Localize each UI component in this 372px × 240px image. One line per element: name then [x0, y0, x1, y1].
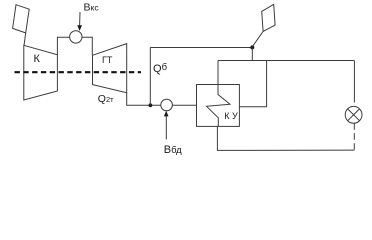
svg-text:ГТ: ГТ — [102, 55, 113, 65]
exhaust stack duct (right parallelogram) — [262, 4, 275, 31]
wire Qб header — [150, 47, 252, 49]
wire boiler right exit — [239, 61, 266, 107]
wire intake to compressor — [24, 33, 26, 46]
compressor K — [24, 45, 58, 100]
wire mixing chamber to boiler — [172, 104, 196, 106]
svg-text:К: К — [34, 53, 41, 65]
wire stack to junction — [253, 31, 264, 46]
shaft (dashed line) — [15, 71, 142, 73]
wire down into boiler top — [217, 61, 219, 85]
node junction at exhaust stack — [250, 45, 254, 49]
wire heat load return (dashed) — [353, 123, 355, 150]
wire bypass header — [218, 60, 354, 62]
wire bottom return line — [217, 126, 354, 150]
svg-text:К У: К У — [224, 111, 238, 121]
wire right drop to heat load — [353, 61, 355, 97]
wire combustion chamber to turbine — [82, 37, 92, 55]
wire heat load inlet (dashed) — [353, 96, 355, 106]
svg-text:Вбд: Вбд — [164, 144, 182, 156]
wire turbine exhaust down and right — [127, 93, 161, 106]
arrow Вбд fuel input — [164, 111, 169, 140]
gas turbine ГТ — [93, 44, 127, 93]
svg-text:Q2т: Q2т — [98, 93, 114, 105]
combustion chamber — [70, 31, 82, 43]
air intake duct (left parallelogram) — [13, 5, 30, 33]
mixing chamber circle — [161, 99, 173, 111]
node junction at exhaust line — [149, 103, 153, 107]
boiler КУ box — [197, 85, 240, 127]
wire junction down — [251, 48, 253, 61]
svg-text:Qб: Qб — [153, 62, 168, 75]
wire riser to Qб header — [149, 48, 151, 106]
heating surface zigzag inside КУ — [207, 85, 231, 127]
wire compressor outlet to combustion chamber — [57, 37, 69, 55]
heat load (circle with X) — [345, 106, 362, 123]
svg-text:Вкс: Вкс — [84, 2, 100, 14]
arrow Вкс fuel input — [77, 12, 82, 31]
